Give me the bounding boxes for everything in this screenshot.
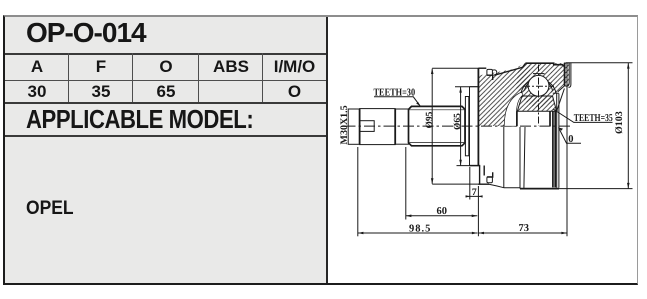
clamp corner lines bottom (487, 172, 493, 177)
land (diam 65 section) (470, 86, 479, 88)
cage outer arc (521, 79, 556, 93)
clamp section bottom edge (478, 183, 489, 185)
dim diam95: ext lines (432, 68, 479, 184)
row line under values (5, 102, 326, 104)
bore thin lines (557, 94, 559, 188)
thread washer (348, 109, 359, 144)
column lines (68, 53, 69, 102)
dim 7: line + arrows (466, 195, 483, 197)
mouth ring hatched (565, 63, 570, 86)
track center mark (533, 73, 545, 75)
bell back slope top (495, 63, 526, 75)
row line under title (5, 53, 326, 55)
top band hatch over ball (516, 63, 564, 107)
boot clamp face (bold) (477, 68, 479, 165)
svg-text:Ø65: Ø65 (453, 113, 463, 130)
svg-text:73: 73 (519, 223, 530, 234)
ball crosshair horizontal (523, 85, 554, 87)
boot step lower (480, 166, 485, 185)
applicable model (26, 104, 253, 135)
ball (528, 75, 549, 96)
svg-text:M30X1.5: M30X1.5 (339, 105, 350, 144)
washer/thread division (bold) (359, 109, 361, 144)
row line under APPLICABLE MODEL (5, 135, 326, 137)
bore opening line (553, 92, 559, 94)
OPEL (26, 198, 74, 220)
dim diam65: line (460, 87, 462, 165)
dim 7: ext lines (470, 167, 479, 236)
svg-text:98.5: 98.5 (409, 223, 431, 234)
svg-text:Ø95: Ø95 (425, 111, 435, 128)
ring behind land (465, 97, 468, 156)
bell right face (564, 63, 566, 86)
spline shaft TEETH=30 (409, 106, 466, 145)
clamp lip curl (492, 70, 496, 75)
clamp corner lines top (487, 75, 493, 80)
race top edges (516, 96, 556, 111)
inner race hatch (517, 96, 557, 111)
svg-text:Ø103: Ø103 (614, 111, 625, 134)
boot clamp groove bottom (487, 177, 493, 183)
mouth inner chamfer (557, 89, 565, 112)
spline minor diameter lines (410, 110, 465, 143)
dim 98.5: ext line (357, 147, 359, 236)
dim 73: line + arrows (478, 232, 567, 234)
dim 60: ext line (405, 147, 407, 220)
ball crosshair vertical (538, 65, 540, 126)
svg-text:60: 60 (437, 206, 448, 217)
bottom outside: back taper (489, 184, 520, 188)
centerline (345, 125, 574, 127)
row line under headers (5, 80, 326, 81)
dim 60: line + arrows (406, 215, 478, 217)
track groove white (504, 92, 523, 126)
boot clamp groove top (487, 69, 493, 75)
clamp section top edge (478, 67, 486, 69)
bottom section dividers (504, 127, 525, 189)
dim diam95: line (431, 69, 433, 184)
race side edges (517, 96, 556, 111)
dim diam103: line (627, 63, 629, 189)
bell top edge (525, 63, 564, 66)
thread end (bold) (394, 109, 396, 145)
cage wedge right hatch (551, 82, 556, 94)
bottom bell edge (520, 188, 559, 190)
title (26, 17, 146, 49)
thread inner rect (360, 121, 375, 132)
dim 73 ext line (long) (566, 63, 568, 236)
dim 98.5: line + arrows (358, 232, 478, 234)
dim diam65: ext lines (455, 87, 470, 166)
dim diam103: ext lines (559, 63, 633, 189)
mouth outer line (569, 63, 571, 88)
svg-text:7: 7 (472, 187, 477, 198)
headers (5, 57, 69, 77)
cage wedge left hatch (522, 82, 527, 94)
race bore bold bars (517, 112, 555, 188)
bell back wall hatch (479, 63, 530, 126)
neck (395, 109, 408, 144)
values (5, 82, 69, 102)
mouth chamfer edge (558, 86, 565, 92)
thread body M30X1.5 (360, 109, 396, 145)
cage inner arc (525, 79, 553, 90)
